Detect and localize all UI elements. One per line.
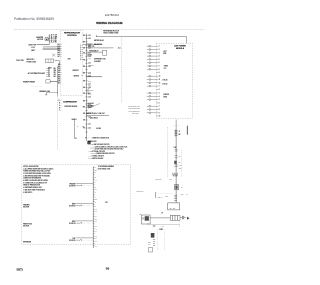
svg-text:WIRING DIAGRAM: WIRING DIAGRAM: [96, 21, 123, 25]
svg-text:EI27BS16J: EI27BS16J: [105, 13, 120, 17]
svg-text:Publication No. 5995536629: Publication No. 5995536629: [14, 17, 54, 21]
svg-text:LED POWER: LED POWER: [174, 46, 186, 48]
svg-text:COMPRESSOR: COMPRESSOR: [63, 101, 77, 103]
svg-text:39: 39: [106, 267, 110, 271]
svg-text:MODULE: MODULE: [176, 48, 185, 50]
svg-text:CONTROL: CONTROL: [67, 35, 78, 37]
